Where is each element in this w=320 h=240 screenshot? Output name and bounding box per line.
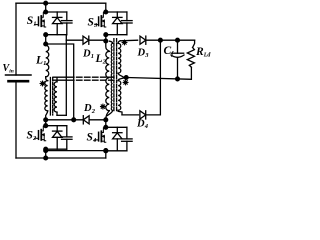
svg-text:L2: L2: [95, 53, 107, 66]
svg-text:D3: D3: [137, 48, 150, 60]
svg-text:S3: S3: [88, 17, 99, 30]
svg-text:D2: D2: [83, 103, 96, 115]
svg-text:S1: S1: [27, 15, 37, 28]
svg-text:Vin: Vin: [3, 63, 14, 75]
svg-text:D1: D1: [82, 49, 94, 61]
svg-text:S2: S2: [27, 130, 38, 143]
svg-text:L1: L1: [35, 55, 46, 68]
svg-text:D4: D4: [136, 119, 149, 131]
svg-text:Cf: Cf: [164, 45, 175, 58]
svg-text:S4: S4: [87, 132, 98, 145]
svg-text:RLd: RLd: [195, 46, 211, 59]
